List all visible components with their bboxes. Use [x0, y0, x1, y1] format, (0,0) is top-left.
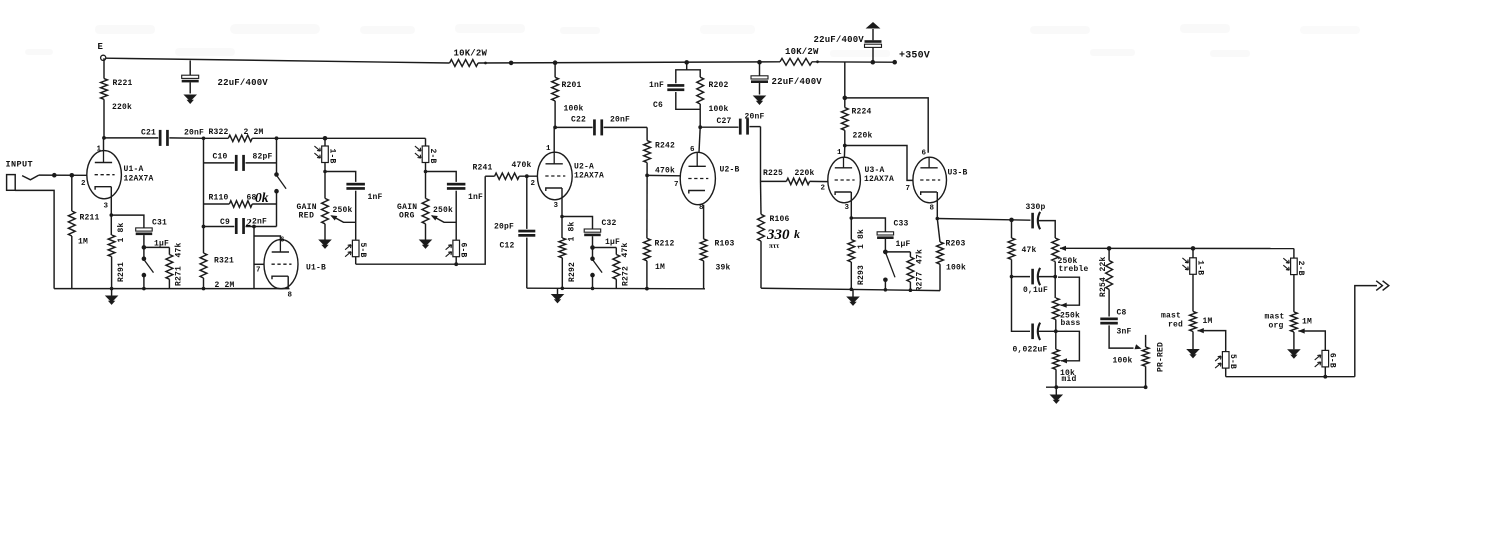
junction V3-B cathode output node — [936, 217, 940, 221]
svg-text:πττ: πττ — [769, 242, 780, 250]
wire to V3-B plate pin 6 — [845, 98, 928, 153]
wire to output arrow — [1355, 286, 1377, 377]
junction below LDR 2-B — [425, 163, 427, 172]
junction mid row — [1054, 329, 1058, 333]
junction V1-A plate node — [102, 136, 106, 140]
wiper of treble pot (output) — [1060, 246, 1067, 251]
svg-text:39k: 39k — [716, 264, 731, 273]
wire gain networks bottom line to V2-A grid — [356, 176, 486, 264]
svg-text:100k: 100k — [564, 105, 584, 114]
svg-text:250k: 250k — [433, 206, 453, 215]
wire V1-A plate pin 1 to R221/C21 node — [103, 139, 105, 151]
svg-text:mid: mid — [1062, 375, 1077, 384]
wire plate node to V2-B pin 6 — [699, 127, 700, 152]
wire 2-B to mast org pot — [1293, 275, 1295, 312]
wire left rail of RC network — [203, 138, 205, 226]
wire 2-B node to 1nF cap — [426, 172, 457, 182]
potentiometer 250k bass — [1052, 298, 1059, 320]
ground bus V2 section — [527, 287, 705, 290]
wire cathode follower output to tone stack — [937, 219, 1030, 221]
wire U1-B plate pin 6 tie line — [254, 236, 280, 240]
svg-text:20pF: 20pF — [494, 223, 514, 232]
resistor R254 22k — [1108, 248, 1110, 260]
resistor R224 220k (V3-A plate load) — [841, 108, 848, 131]
triode U1-B 12AX7A (unused half, tied off) — [264, 240, 298, 289]
svg-text:INPUT: INPUT — [6, 160, 34, 170]
resistor R272 47k — [615, 248, 617, 255]
resistor R277 47k — [909, 252, 911, 257]
svg-text:1: 1 — [546, 145, 551, 153]
junction dots C9 row — [202, 225, 206, 229]
svg-text:1µF: 1µF — [605, 238, 620, 247]
svg-text:0,022uF: 0,022uF — [1013, 346, 1048, 355]
wire V2-A plate pin 1 up to C22 node — [553, 127, 555, 152]
wire V3-A cathode pin 3 down — [850, 192, 852, 218]
svg-text:R293: R293 — [857, 265, 866, 285]
wire C32 node to R272 — [593, 247, 617, 249]
capacitor C8 3nF — [1100, 318, 1118, 321]
junction C32 bottom node — [590, 245, 595, 250]
svg-text:470k: 470k — [512, 161, 532, 170]
svg-text:PR-RED: PR-RED — [1156, 342, 1165, 372]
svg-text:C12: C12 — [500, 242, 515, 251]
svg-text:1M: 1M — [1203, 317, 1213, 326]
svg-text:3: 3 — [104, 203, 109, 211]
svg-text:2: 2 — [821, 185, 826, 193]
potentiometer GAIN ORG 250k — [425, 172, 427, 199]
resistor R322 2.2M — [202, 137, 206, 141]
capacitor 22uF/400V (second filter cap) — [759, 62, 761, 76]
junction PR-RED bottom — [1144, 385, 1148, 389]
svg-text:22uF/400V: 22uF/400V — [814, 35, 865, 45]
svg-text:C31: C31 — [152, 219, 167, 228]
wire V2-A cathode pin 3 down — [561, 188, 563, 217]
svg-text:10K/2W: 10K/2W — [454, 49, 488, 59]
svg-text:47k: 47k — [1022, 246, 1037, 255]
resistor R241 470k (grid stopper) — [485, 175, 494, 177]
capacitor C33 1uF (cathode bypass) — [851, 218, 885, 232]
ground symbol below mid pot — [1055, 387, 1057, 394]
svg-text:2 2M: 2 2M — [215, 281, 235, 290]
junction V3-A plate node — [843, 144, 847, 148]
triode U3-A 12AX7A — [828, 157, 861, 203]
triode U3-B 12AX7A (cathode follower) — [913, 157, 947, 203]
svg-text:1µF: 1µF — [896, 240, 911, 249]
junction dot at 22uF cap 3 — [871, 60, 876, 65]
svg-text:R201: R201 — [562, 81, 582, 90]
wire V2-B cathode pin 8 to R103 — [703, 205, 705, 239]
wire 47k column down to 0,022uF — [1012, 277, 1031, 332]
resistor R203 100k (cathode follower load) — [937, 219, 940, 242]
wire C33 node to R277 — [885, 251, 910, 253]
junction dot B+ rail x511 — [509, 61, 514, 66]
wire B+ feed to V3 — [844, 62, 846, 98]
svg-text:12AX7A: 12AX7A — [574, 172, 604, 181]
svg-text:20nF: 20nF — [745, 113, 765, 122]
svg-text:org: org — [1269, 322, 1284, 331]
potentiometer mast org 1M — [1291, 312, 1298, 332]
junction dot B+ rail at 22uF cap 2 — [757, 60, 762, 65]
svg-text:R277: R277 — [916, 271, 925, 291]
svg-text:E: E — [98, 42, 104, 52]
node +350V — [892, 60, 897, 65]
junction V2-B plate node — [698, 125, 702, 129]
wire V3-B cathode pin 8 down — [936, 192, 938, 219]
svg-text:C33: C33 — [894, 220, 909, 229]
svg-text:3: 3 — [845, 204, 850, 212]
switch below C32 — [592, 248, 594, 257]
svg-text:470k: 470k — [655, 167, 675, 176]
LDR 6-B — [453, 240, 460, 257]
svg-text:250k: 250k — [333, 206, 353, 215]
svg-text:1-B: 1-B — [327, 149, 336, 164]
wire V2-B grid node to pin 7 — [647, 174, 680, 176]
svg-text:R211: R211 — [80, 214, 100, 223]
svg-text:R225: R225 — [763, 169, 783, 178]
ground below mast red pot — [1192, 332, 1194, 350]
svg-text:6-B: 6-B — [1328, 353, 1337, 368]
resistor R221 220k (V1-A plate load) — [103, 58, 105, 78]
resistor R321 2.2M (grid leak) — [203, 227, 205, 254]
LDR 2-B — [425, 138, 427, 146]
svg-text:5-B: 5-B — [358, 243, 367, 258]
capacitor 0,022uF (mid cap) — [1031, 324, 1034, 340]
LDR 6-B (master org out) — [1322, 350, 1329, 367]
svg-text:2: 2 — [245, 217, 252, 229]
svg-text:22k: 22k — [1099, 256, 1108, 271]
capacitor C10 82pF — [204, 162, 235, 164]
ground symbol V1 bus — [111, 289, 113, 296]
svg-text:0,1uF: 0,1uF — [1023, 286, 1048, 295]
junction R201 bottom / C22 / V2-A plate — [553, 126, 557, 130]
capacitor 0,1uF (bass cap) — [1031, 269, 1034, 285]
resistor R201 100k (V2-A plate load) — [554, 63, 556, 78]
svg-text:10K/2W: 10K/2W — [785, 47, 819, 57]
capacitor C32 1uF (cathode bypass) — [562, 217, 593, 230]
resistor R293 1.8k (V3-A cathode) — [850, 218, 852, 240]
ground below second 22uF cap — [753, 96, 767, 103]
wire jack sleeve to ground bus — [15, 190, 54, 288]
wiper of GAIN RED pot — [332, 216, 356, 223]
junction V2-B grid node — [645, 174, 649, 178]
wire 1-B node to 1nF cap — [325, 172, 356, 182]
potentiometer 10k mid — [1055, 331, 1057, 349]
svg-text:220k: 220k — [853, 132, 873, 141]
svg-text:U3-B: U3-B — [948, 169, 968, 178]
jack tip contact — [22, 175, 39, 180]
faint scan noise band top — [25, 24, 1360, 57]
svg-text:C10: C10 — [213, 153, 228, 162]
svg-text:12AX7A: 12AX7A — [124, 175, 154, 184]
svg-text:100k: 100k — [946, 264, 966, 273]
output arrow (double chevron) — [1376, 281, 1382, 291]
wire bass bottom to mid row — [1055, 320, 1057, 332]
svg-text:R221: R221 — [113, 79, 133, 88]
svg-text:U1-B: U1-B — [306, 264, 326, 273]
svg-text:U1-A: U1-A — [124, 165, 144, 174]
potentiometer 250k treble — [1052, 238, 1059, 262]
svg-text:100k: 100k — [1113, 357, 1133, 366]
svg-text:82pF: 82pF — [253, 153, 273, 162]
svg-text:5-B: 5-B — [1228, 354, 1237, 369]
switch below C31 (channel switching contact) — [143, 247, 145, 256]
svg-text:U2-A: U2-A — [574, 163, 594, 172]
junction R254 — [1107, 246, 1112, 251]
svg-text:C21: C21 — [141, 129, 156, 138]
svg-text:mast: mast — [1265, 313, 1285, 322]
resistor 10K/2W (first) — [450, 60, 479, 67]
svg-text:2: 2 — [81, 180, 86, 188]
resistor R211 1M (input grid leak) — [70, 173, 75, 178]
svg-text:22uF/400V: 22uF/400V — [772, 77, 823, 87]
capacitor 1nF (gain org) — [447, 183, 466, 186]
svg-text:RED: RED — [299, 212, 315, 221]
ground bus V1 section — [54, 288, 289, 290]
junction dots on V2 bus — [561, 287, 565, 291]
svg-text:C22: C22 — [571, 116, 586, 125]
wire top line to gain networks — [277, 137, 426, 139]
svg-text:ORG: ORG — [399, 212, 415, 221]
junction 47k bottom / 0,1uF row — [1012, 276, 1031, 278]
wire B+ rail right section to +350V — [812, 61, 895, 63]
wire V1-A cathode pin 3 down — [110, 187, 112, 215]
svg-text:47k: 47k — [915, 249, 924, 264]
wire output line corner down to 2-B — [1293, 249, 1295, 259]
junction dot B+ rail at R201 — [553, 60, 558, 65]
junction 47k slope resistor — [1009, 218, 1014, 223]
junction C31 bottom node — [142, 245, 147, 250]
resistor R110 680k (value overwritten by hand) — [204, 203, 230, 205]
svg-text:red: red — [1168, 321, 1183, 330]
junction V3-A cathode node — [850, 216, 854, 220]
svg-text:mast: mast — [1161, 312, 1181, 321]
svg-text:1 8k: 1 8k — [857, 229, 866, 249]
capacitor 22uF/400V (third filter cap, above rail) — [872, 47, 874, 62]
svg-text:C8: C8 — [1117, 309, 1127, 318]
svg-text:R103: R103 — [715, 240, 735, 249]
svg-text:R271: R271 — [175, 266, 184, 286]
resistor R106 330k (grid leak, value handwritten) — [760, 181, 763, 214]
svg-text:1 8k: 1 8k — [568, 221, 577, 241]
ground above third 22uF cap (inverted) — [866, 22, 881, 29]
ground below mast org pot — [1293, 332, 1295, 349]
svg-text:bass: bass — [1061, 319, 1081, 328]
wire 1-B to mast red pot — [1192, 274, 1194, 311]
svg-text:C9: C9 — [220, 218, 230, 227]
svg-text:1nF: 1nF — [468, 193, 483, 202]
svg-text:+350V: +350V — [899, 51, 930, 62]
wire B+ rail left section — [106, 58, 450, 63]
wiper arrow into PR-RED pot — [1135, 344, 1142, 349]
capacitor C31 1uF (cathode bypass) — [111, 215, 144, 228]
junction dots on V3 bus — [850, 288, 854, 292]
svg-text:330p: 330p — [1026, 203, 1046, 212]
junction dots on V1 bus — [110, 287, 114, 291]
svg-text:220k: 220k — [795, 169, 815, 178]
capacitor 330p (treble cap) — [1031, 213, 1034, 229]
svg-text:47k: 47k — [621, 242, 630, 257]
svg-text:R291: R291 — [117, 262, 126, 282]
wiper of mid pot looped to top — [1061, 358, 1068, 363]
wire input tip to V1-A grid — [39, 174, 87, 176]
svg-text:20nF: 20nF — [610, 116, 630, 125]
svg-text:R241: R241 — [473, 164, 493, 173]
wire U1-B cathode pin 8 to bus — [287, 276, 289, 288]
capacitor C22 20nF (coupling) — [555, 126, 593, 128]
svg-text:6: 6 — [690, 146, 695, 154]
wire mid pot bottom to ground bus — [1055, 369, 1057, 387]
resistor R291 1.8k (V1-A cathode) — [110, 213, 114, 217]
svg-text:2-B: 2-B — [1296, 261, 1305, 276]
svg-text:R202: R202 — [709, 81, 729, 90]
svg-text:C6: C6 — [653, 101, 663, 110]
junction mid ground bus — [1054, 385, 1058, 389]
svg-text:7: 7 — [256, 267, 261, 275]
svg-text:3: 3 — [554, 202, 559, 210]
switch on right rail (between C10 and R110 rows) — [274, 172, 279, 177]
ground below GAIN ORG pot — [425, 224, 427, 240]
junction below LDR 1-B — [324, 163, 326, 172]
potentiometer GAIN RED 250k — [324, 172, 326, 199]
svg-text:treble: treble — [1059, 265, 1089, 274]
svg-text:C27: C27 — [717, 117, 732, 126]
svg-text:1: 1 — [837, 149, 842, 157]
capacitor 1nF (gain red) — [346, 183, 365, 186]
ground symbol V2 bus — [557, 288, 559, 294]
wire V3-A plate node to V3-B grid pin 7 — [845, 146, 913, 181]
switch below C33 — [883, 250, 888, 255]
capacitor C27 20nF (coupling) — [700, 126, 738, 128]
svg-text:R322: R322 — [209, 128, 229, 137]
svg-text:R110: R110 — [209, 194, 229, 203]
svg-text:R106: R106 — [770, 215, 790, 224]
svg-text:R203: R203 — [946, 240, 966, 249]
wiper of mast org pot — [1298, 328, 1305, 333]
wire C27 out down to R225 node — [760, 127, 762, 182]
svg-text:330: 330 — [766, 227, 790, 243]
capacitor C21 20nF (coupling) — [104, 137, 158, 139]
svg-text:7: 7 — [674, 181, 679, 189]
wire tone stack ground bus to PR-RED pot — [1046, 386, 1146, 388]
resistor R103 39k (V2-B cathode) — [700, 239, 707, 261]
potentiometer mast red 1M — [1190, 311, 1197, 331]
resistor R242 470k — [646, 127, 648, 140]
triode U2-A 12AX7A — [537, 152, 572, 200]
resistor R212 1M (grid leak) — [646, 175, 648, 238]
svg-text:1 8k: 1 8k — [117, 222, 126, 242]
capacitor C12 20pF (grid to ground) — [525, 174, 529, 178]
svg-text:47k: 47k — [174, 242, 183, 257]
wire treble wiper output line to master section — [1067, 247, 1294, 249]
capacitor C9 22nF — [204, 226, 235, 228]
svg-text:1: 1 — [97, 146, 102, 154]
svg-text:2 2M: 2 2M — [244, 128, 264, 137]
triode U2-B 12AX7A — [680, 152, 715, 204]
svg-text:R242: R242 — [655, 142, 675, 151]
svg-text:R292: R292 — [568, 262, 577, 282]
resistor 10K/2W (second) — [780, 58, 812, 65]
svg-text:R212: R212 — [655, 240, 675, 249]
capacitor 22uF/400V (first filter cap) — [189, 61, 191, 76]
triode U1-A 12AX7A — [87, 151, 122, 199]
potentiometer PR-RED 100k (presence) — [1145, 335, 1147, 347]
resistor R292 1.8k (V2-A cathode) — [560, 215, 564, 219]
svg-text:6-B: 6-B — [459, 243, 468, 258]
svg-text:k: k — [794, 227, 800, 241]
ground below GAIN RED pot — [324, 224, 326, 240]
ground below first 22uF cap — [183, 95, 197, 102]
svg-text:1nF: 1nF — [649, 81, 664, 90]
svg-text:U3-A: U3-A — [865, 166, 885, 175]
ground bus V3 section — [761, 288, 940, 290]
svg-text:C32: C32 — [602, 219, 617, 228]
LDR 5-B — [352, 240, 359, 257]
LDR 1-B (master red) — [1191, 246, 1196, 251]
resistor R225 220k (grid stopper) — [761, 180, 787, 182]
svg-text:R272: R272 — [622, 266, 631, 286]
svg-text:6: 6 — [922, 150, 927, 158]
svg-text:7: 7 — [906, 185, 911, 193]
wiper of bass pot looped to top — [1060, 303, 1067, 308]
svg-text:1nF: 1nF — [368, 193, 383, 202]
resistor R202 100k (V2-B plate load) — [687, 70, 701, 77]
LDR 2-B (master org) — [1291, 258, 1298, 275]
svg-text:8: 8 — [930, 205, 935, 213]
wire V3-A plate node down to pin 1 — [843, 146, 845, 158]
wire B+ rail middle section — [478, 62, 780, 63]
wire master outputs joined — [1226, 376, 1355, 378]
capacitor C6 1nF (bright cap over R202) — [676, 62, 687, 83]
resistor R271 47k — [168, 247, 170, 254]
wire C31 node to R271 — [144, 246, 170, 248]
junction V3-B plate feed — [843, 96, 848, 101]
LDR 1-B — [324, 138, 326, 146]
svg-text:R321: R321 — [214, 257, 234, 266]
svg-text:100k: 100k — [709, 105, 729, 114]
junction C33 bottom node — [883, 250, 888, 255]
svg-text:1M: 1M — [655, 263, 665, 272]
svg-text:2: 2 — [531, 180, 536, 188]
svg-text:1-B: 1-B — [1195, 260, 1204, 275]
LDR 5-B (master red out) — [1222, 352, 1229, 369]
junction dot B+ rail at C6/R202 — [684, 60, 689, 65]
svg-text:R224: R224 — [852, 108, 872, 117]
ground symbol V3 bus — [852, 289, 854, 296]
svg-text:2-B: 2-B — [428, 149, 437, 164]
svg-text:220k: 220k — [112, 103, 132, 112]
wiper of mast red pot — [1197, 328, 1204, 333]
svg-text:3nF: 3nF — [1117, 328, 1132, 337]
svg-text:1M: 1M — [1302, 318, 1312, 327]
svg-text:1M: 1M — [78, 238, 88, 247]
wiper of GAIN ORG pot — [432, 216, 456, 223]
svg-text:22uF/400V: 22uF/400V — [218, 78, 269, 88]
svg-text:0k: 0k — [255, 190, 269, 205]
wire right rail of RC network with switch — [276, 138, 278, 173]
svg-text:8: 8 — [288, 292, 293, 300]
resistor 47k (treble slope) — [1011, 220, 1013, 238]
svg-text:12AX7A: 12AX7A — [864, 175, 894, 184]
svg-text:R254: R254 — [1099, 277, 1108, 297]
junction treble bottom / bass top — [1053, 275, 1057, 279]
svg-text:20nF: 20nF — [184, 129, 204, 138]
wire U1-B grid pin 7 tie line to C9 row and bus — [253, 227, 255, 289]
svg-text:U2-B: U2-B — [720, 166, 740, 175]
